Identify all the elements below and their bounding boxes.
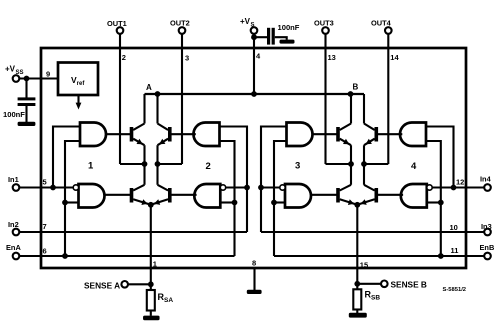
wire In1 pin 5	[19, 186, 73, 188]
transistor lower-right bridge A	[168, 188, 172, 203]
terminal SENSE A	[121, 281, 128, 288]
node common emitter bridge B	[354, 202, 360, 208]
svg-text:SENSE A: SENSE A	[84, 281, 120, 291]
transistor lower-left bridge A	[130, 188, 134, 203]
node In1 junction	[50, 185, 56, 191]
wire bridge B left mid vertical	[350, 145, 352, 185]
wire OUT2 pin 3	[181, 34, 183, 164]
wire SENSE A	[128, 283, 148, 285]
wire gate4 upper output	[378, 133, 402, 135]
svg-text:1: 1	[88, 161, 94, 172]
wire EnB to gate 4 inputs	[426, 141, 441, 256]
terminal +VSS	[13, 75, 20, 82]
wire gate1 lower output	[105, 194, 131, 196]
svg-text:9: 9	[46, 70, 50, 79]
svg-text:12: 12	[456, 178, 464, 187]
wire EnA to gate 2 lower input	[220, 201, 234, 203]
svg-text:S: S	[251, 23, 255, 29]
wire bridge A left mid vertical	[143, 145, 145, 185]
node EnB gate3 lower tap	[271, 200, 277, 206]
svg-text:OUT1: OUT1	[107, 19, 127, 28]
node OUT left bridge B	[348, 161, 354, 167]
wire EnB pin 11	[274, 255, 484, 257]
transistor upper-right bridge A	[168, 127, 172, 142]
svg-text:In2: In2	[8, 220, 19, 229]
wire OUT right bridge B	[364, 163, 388, 165]
svg-text:SS: SS	[16, 70, 24, 76]
svg-text:100nF: 100nF	[3, 110, 25, 119]
wire gate2 lower output	[172, 194, 197, 196]
wire gate4 lower output	[378, 194, 403, 196]
svg-text:OUT4: OUT4	[371, 19, 392, 28]
transistor lower-right bridge B	[375, 188, 379, 203]
Vref regulator box	[58, 63, 98, 96]
wire bridge A right mid vertical	[156, 145, 158, 185]
gate 4 input inverter bubble	[427, 185, 432, 190]
svg-text:In1: In1	[8, 175, 19, 184]
transistor lower-left bridge B	[336, 188, 340, 203]
node EnA gate1 lower tap	[62, 200, 68, 206]
wire EnA to gate 1 inputs	[65, 141, 80, 256]
AND gate 4 upper	[400, 123, 426, 147]
svg-text:B: B	[353, 83, 359, 92]
svg-text:SENSE B: SENSE B	[391, 279, 427, 289]
wire C2 to ground	[275, 37, 287, 40]
node OUT right bridge A	[155, 161, 161, 167]
node EnB gate4 lower tap	[438, 200, 444, 206]
wire In3 pin 10	[261, 231, 484, 233]
node sense B junction	[354, 281, 360, 287]
wire +VS pin 4 to supply rail	[253, 34, 255, 94]
wire In4 to gate 4 upper input	[426, 127, 454, 188]
AND gate 3 lower	[285, 184, 311, 208]
svg-text:5: 5	[43, 178, 47, 187]
svg-text:7: 7	[43, 222, 47, 231]
transistor upper-right bridge B	[375, 127, 379, 142]
wire gate2 upper output	[172, 133, 196, 135]
AND gate 2 upper	[193, 123, 219, 147]
node In3 junction	[258, 185, 264, 191]
wire EnA riser to gate 2	[220, 141, 235, 256]
wire +VSS to C1	[25, 79, 27, 98]
node sense A junction	[148, 281, 154, 287]
svg-text:4: 4	[411, 161, 417, 172]
node A	[155, 91, 161, 97]
svg-text:14: 14	[390, 53, 399, 62]
svg-text:3: 3	[295, 161, 300, 172]
terminal SENSE B	[381, 281, 388, 288]
wire EnA to gate 1 lower input	[65, 201, 79, 203]
wire gate4 bubble to In4	[432, 186, 453, 188]
svg-text:6: 6	[43, 247, 47, 256]
node +VS decoupling junction	[251, 34, 257, 40]
svg-text:EnB: EnB	[480, 243, 495, 252]
wire In2 riser to gate 2	[220, 127, 248, 233]
AND gate 4 lower	[401, 184, 427, 208]
svg-text:In4: In4	[480, 175, 492, 184]
resistor RSB	[356, 284, 358, 290]
wire In1 to gate 1 upper input	[53, 127, 80, 188]
node In4 junction	[451, 185, 457, 191]
wire In3 riser to gate 3	[261, 127, 287, 233]
ground below RSA	[143, 316, 160, 321]
node EnB gate4 junction	[438, 253, 444, 259]
supply rail wire	[145, 93, 365, 95]
node B	[348, 91, 354, 97]
wire common emitter A to pin 1	[150, 205, 152, 284]
wire +VS to C2	[254, 36, 267, 38]
svg-text:2: 2	[122, 53, 126, 62]
svg-text:RSA: RSA	[158, 292, 174, 304]
node In2 junction	[244, 185, 250, 191]
terminal EnA	[13, 253, 20, 260]
ground below RSB	[349, 313, 367, 318]
svg-text:3: 3	[185, 53, 189, 62]
terminal OUT1	[117, 27, 124, 34]
wire gate3 lower output	[311, 194, 337, 196]
wire EnB to gate 4 lower input	[427, 201, 441, 203]
svg-text:11: 11	[451, 246, 459, 255]
terminal In1	[13, 184, 20, 191]
wire EnA pin 6	[19, 255, 234, 257]
terminal OUT4	[385, 27, 392, 34]
wire OUT left bridge B	[326, 163, 352, 165]
wire gate2 bubble to In2	[226, 186, 247, 188]
wire gate3 upper output	[313, 133, 337, 135]
wire +VSS to Vref pin 9	[19, 77, 58, 79]
resistor RSA	[150, 284, 152, 290]
ground below pin 8	[247, 290, 262, 294]
node OUT right bridge B	[361, 161, 367, 167]
terminal In4	[484, 184, 491, 191]
node OUT left bridge A	[142, 161, 148, 167]
wire OUT left bridge A	[120, 163, 145, 165]
transistor upper-left bridge A	[130, 127, 134, 142]
svg-text:RSB: RSB	[365, 290, 381, 302]
node EnA gate2 lower tap	[232, 200, 238, 206]
AND gate 2 lower	[194, 184, 220, 208]
node +VSS junction	[24, 76, 30, 82]
ground below C2	[280, 40, 295, 44]
terminal +VS	[251, 27, 258, 34]
svg-text:S-5851/2: S-5851/2	[443, 287, 467, 293]
ground below C1	[18, 122, 36, 126]
svg-text:A: A	[146, 83, 152, 92]
terminal In3	[484, 229, 491, 236]
svg-text:In3: In3	[481, 222, 492, 231]
wire common emitter B to pin 15	[356, 205, 358, 284]
wire SENSE B	[360, 283, 381, 285]
capacitor C1 100nF	[18, 97, 36, 100]
IC block outline	[41, 48, 466, 268]
gate 1 input inverter bubble	[73, 185, 78, 190]
svg-text:1: 1	[153, 260, 157, 269]
capacitor C2 100nF	[267, 28, 270, 45]
svg-text:+V: +V	[240, 17, 251, 26]
AND gate 1 lower	[79, 184, 105, 208]
terminal EnB	[484, 253, 491, 260]
wire bridge B right mid vertical	[363, 145, 365, 185]
wire OUT1 pin 2	[119, 34, 121, 164]
wire gate1 upper output	[106, 133, 130, 135]
wire EnB riser to gate 3	[274, 141, 287, 256]
AND gate 1 upper	[80, 123, 106, 147]
svg-text:4: 4	[256, 52, 261, 61]
wire In3 to gate 3 inverting input	[261, 186, 280, 188]
wire In4 pin 12	[432, 186, 484, 188]
svg-text:OUT3: OUT3	[314, 19, 334, 28]
wire RSA to ground	[150, 311, 152, 316]
wire In2 pin 7	[19, 231, 247, 233]
svg-text:8: 8	[252, 259, 256, 268]
node EnA gate1 junction	[62, 253, 68, 259]
svg-text:15: 15	[360, 261, 368, 270]
node +VS rail junction	[251, 91, 257, 97]
wire RSB to ground	[356, 310, 358, 314]
wire C1 to ground	[25, 106, 27, 122]
wire EnB to gate 3 lower input	[274, 201, 285, 203]
terminal OUT3	[322, 27, 329, 34]
svg-text:+V: +V	[5, 65, 16, 74]
svg-text:2: 2	[206, 161, 211, 172]
gate 3 input inverter bubble	[280, 185, 285, 190]
wire OUT4 pin 14	[387, 34, 389, 164]
wire OUT3 pin 13	[324, 34, 326, 164]
svg-text:EnA: EnA	[6, 243, 21, 252]
gate 2 input inverter bubble	[220, 185, 225, 190]
terminal In2	[13, 229, 20, 236]
svg-text:100nF: 100nF	[278, 23, 300, 32]
svg-text:OUT2: OUT2	[170, 19, 190, 28]
svg-text:13: 13	[328, 53, 336, 62]
AND gate 3 upper	[287, 123, 313, 147]
wire OUT right bridge A	[158, 163, 183, 165]
node common emitter bridge A	[148, 202, 154, 208]
svg-text:10: 10	[450, 223, 458, 232]
terminal OUT2	[179, 27, 186, 34]
Vref output arrow	[77, 95, 79, 104]
transistor upper-left bridge B	[336, 127, 340, 142]
